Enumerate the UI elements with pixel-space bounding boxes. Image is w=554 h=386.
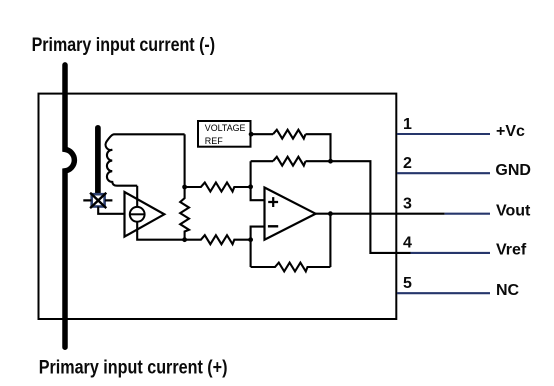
svg-text:3: 3 (403, 196, 412, 213)
pin 1 line (397, 133, 490, 135)
node dot: voltage ref output (249, 132, 254, 137)
node dot: A1 out/R4/R5 (182, 237, 187, 242)
resistor R1 (top row) (273, 130, 305, 139)
node dot: plus bus (248, 184, 253, 189)
wire: feedback up to output node (329, 214, 331, 267)
node dot: output (328, 211, 333, 216)
op-amp plus sign (268, 197, 278, 207)
op-amp minus sign (268, 225, 278, 227)
wire: op-amp output to pin 3 (316, 213, 445, 215)
op-amp U1 triangle (265, 188, 316, 240)
svg-text:Vout: Vout (496, 203, 531, 220)
wire: minus input bus (251, 227, 265, 240)
svg-text:+Vc: +Vc (496, 123, 525, 140)
svg-text:NC: NC (496, 282, 520, 299)
coil L1 (compensation winding) (106, 134, 185, 185)
primary conductor (thick vertical line with right bump) (65, 65, 74, 347)
svg-text:VOLTAGE: VOLTAGE (205, 123, 246, 133)
svg-text:Vref: Vref (496, 242, 527, 259)
amplifier A1 circle symbol (130, 207, 145, 222)
resistor R6 (feedback) (251, 263, 331, 272)
svg-text:5: 5 (403, 275, 412, 292)
resistor R5 (to minus input) (185, 235, 251, 244)
node dot: R1/R2 junction (328, 159, 333, 164)
hall element X-box (83, 193, 112, 208)
resistor R2 (second row) (273, 157, 305, 166)
wire: minus bus down to feedback (250, 240, 252, 267)
pin 3 line (445, 213, 490, 215)
wire: hall element to amplifier A1 input (98, 207, 124, 214)
svg-text:GND: GND (495, 162, 531, 179)
pin 4 line (411, 252, 491, 254)
wire: coil bottom to A1 circle (136, 186, 138, 207)
wire: A1 output down to node row (137, 222, 184, 240)
svg-text:Primary input current (-): Primary input current (-) (32, 34, 216, 56)
svg-text:4: 4 (403, 235, 412, 252)
svg-text:REF: REF (205, 136, 223, 146)
wire: voltage ref to resistor R1 (251, 133, 273, 135)
svg-text:2: 2 (403, 155, 412, 172)
pin 5 line (397, 292, 490, 294)
wire: plus input bus (251, 161, 265, 200)
voltage reference box (198, 121, 251, 147)
node dot: minus bus (248, 237, 253, 242)
svg-text:Primary input current (+): Primary input current (+) (39, 357, 228, 379)
wire: R2 to Vref pin line (306, 161, 411, 253)
wire: plus bus top corner (251, 160, 273, 162)
pin 2 line (397, 172, 490, 174)
resistor R4 (vertical) (180, 187, 189, 240)
amplifier A1 triangle (125, 192, 165, 237)
svg-text:1: 1 (403, 116, 412, 133)
resistor R3 (to plus input) (185, 183, 251, 192)
magnetic core stub (thick line into hall element) (95, 128, 101, 194)
wire: coil top down to node (184, 134, 186, 187)
wire: R1 to node (306, 134, 331, 161)
node dot: coil/R3/R4 (182, 185, 187, 190)
IC package outline (39, 94, 397, 319)
